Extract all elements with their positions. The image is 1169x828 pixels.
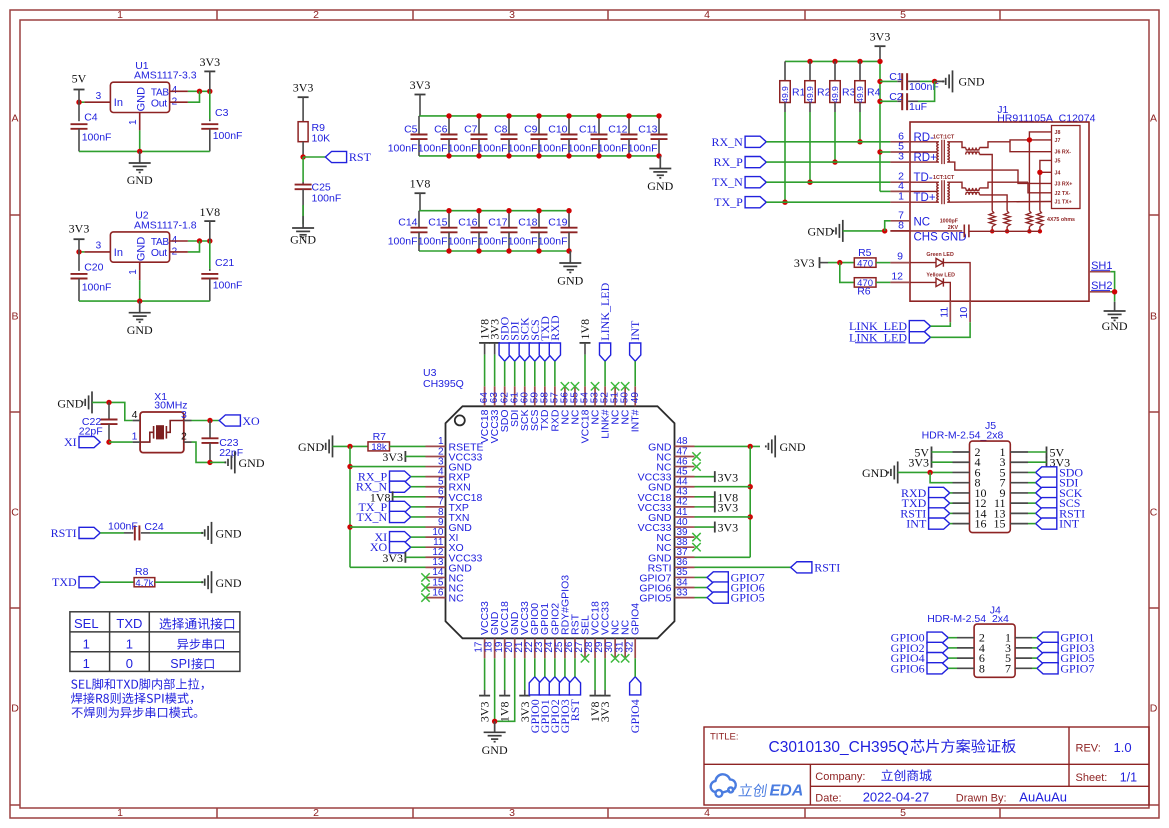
svg-text:GND: GND xyxy=(239,456,265,470)
svg-text:C25: C25 xyxy=(312,181,331,193)
svg-text:5: 5 xyxy=(900,9,906,21)
U3 pin 16 NC xyxy=(426,597,446,599)
svg-text:GND: GND xyxy=(647,179,673,193)
net flag RSTI J5-14 xyxy=(929,508,950,519)
wire R3 to pad xyxy=(834,103,836,113)
net 3V3 J5-3 xyxy=(1046,457,1048,468)
U3 pin 33 GPIO5 xyxy=(675,597,695,599)
U3 pin 51 NC xyxy=(614,386,616,406)
U3 pin 54 VCC18 xyxy=(584,386,586,406)
U3 pin 53 NC xyxy=(594,386,596,406)
svg-text:TX_N: TX_N xyxy=(357,510,388,524)
svg-text:C17: C17 xyxy=(488,217,507,229)
J4 pin 7 xyxy=(1015,667,1032,669)
wire xyxy=(302,157,304,182)
U3 pin 1 RSETE xyxy=(426,445,446,447)
X1 pin 2 xyxy=(184,441,192,443)
U3 pin 42 VCC33 xyxy=(675,506,695,508)
no-connect pins 14-16 xyxy=(421,573,429,581)
svg-text:R5: R5 xyxy=(858,247,872,259)
svg-text:100nF: 100nF xyxy=(418,236,448,248)
svg-text:470: 470 xyxy=(857,258,873,269)
J1 pin SH2 xyxy=(1089,291,1111,293)
U3 pin 46 NC xyxy=(675,466,695,468)
svg-text:RST: RST xyxy=(568,699,582,722)
svg-text:C18: C18 xyxy=(518,217,537,229)
capacitor C7 xyxy=(478,116,480,135)
svg-text:C20: C20 xyxy=(84,261,103,273)
net 5V J5-2 xyxy=(931,447,933,458)
net flag INT J5-16 xyxy=(929,518,950,529)
svg-text:GND: GND xyxy=(290,233,316,247)
svg-text:22pF: 22pF xyxy=(79,426,103,438)
J5 pin 10 xyxy=(953,492,970,494)
U3 pin 57 RXD xyxy=(554,386,556,406)
net flag RX_P pin4 xyxy=(390,471,411,482)
net flag RST bottom xyxy=(569,677,580,695)
svg-text:GND: GND xyxy=(959,75,985,89)
U3 pin 24 GPIO2 xyxy=(554,638,556,658)
U3 pin 49 INT# xyxy=(634,386,636,406)
svg-text:GND: GND xyxy=(127,173,153,187)
svg-text:AuAuAu: AuAuAu xyxy=(1019,790,1067,805)
U3 pin 31 NC xyxy=(624,638,626,658)
J5 pin 8 xyxy=(953,482,970,484)
svg-text:RST: RST xyxy=(349,150,372,164)
J1 pin 6 RD- xyxy=(890,141,910,143)
svg-text:1: 1 xyxy=(83,636,90,651)
svg-text:A: A xyxy=(1150,113,1157,125)
ground xyxy=(302,216,304,228)
svg-text:C5: C5 xyxy=(404,123,418,135)
J4 pin 6 xyxy=(957,657,974,659)
U3 pin 37 GND xyxy=(675,556,695,558)
net flag SDO xyxy=(499,343,510,361)
wire to pin9 GND xyxy=(350,526,426,528)
svg-text:D: D xyxy=(1150,703,1158,715)
J1 pin5 wire xyxy=(880,151,890,153)
svg-text:C16: C16 xyxy=(458,217,477,229)
EasyEDA logo xyxy=(711,774,736,796)
net 3V3 vertical xyxy=(489,342,500,344)
capacitor C6 xyxy=(448,116,450,135)
svg-text:GND: GND xyxy=(557,274,583,288)
input cap xyxy=(78,252,80,271)
svg-text:100nF: 100nF xyxy=(388,236,418,248)
svg-text:4X75 ohms: 4X75 ohms xyxy=(1047,217,1075,223)
U3 pin 60 SCK xyxy=(524,386,526,406)
svg-text:1V8: 1V8 xyxy=(578,319,592,340)
net flag XI xyxy=(79,437,100,448)
svg-text:RSTI: RSTI xyxy=(814,560,840,574)
gnd bus wire xyxy=(79,150,210,152)
net flag GPIO4 J4-6 xyxy=(927,653,948,664)
svg-text:In: In xyxy=(114,97,123,109)
X1 pin 3 xyxy=(184,420,192,422)
resistor R3 xyxy=(834,61,836,80)
U3 pin 40 VCC33 xyxy=(675,526,695,528)
U3 pin 22 GPIO0 xyxy=(534,638,536,658)
U3 pin 41 GND xyxy=(675,516,695,518)
svg-text:GND: GND xyxy=(298,440,324,454)
U3 pin 59 SCS xyxy=(534,386,536,406)
svg-text:1CT:1CT: 1CT:1CT xyxy=(933,175,955,181)
capacitor C10 xyxy=(568,116,570,135)
svg-text:C3010130_CH395Q: C3010130_CH395Q xyxy=(769,739,909,756)
U3 pin 11 XO xyxy=(426,546,446,548)
net flag GPIO2 bottom xyxy=(549,677,560,695)
net 3V3 pin45 xyxy=(695,476,715,478)
svg-text:SPI: SPI xyxy=(170,657,190,671)
svg-text:100nF: 100nF xyxy=(108,521,138,533)
svg-text:XO: XO xyxy=(242,414,260,428)
svg-text:15: 15 xyxy=(994,517,1006,531)
net flag RXD J5-10 xyxy=(929,487,950,498)
capacitor C12 xyxy=(628,116,630,135)
no-connect pins 47,46 xyxy=(692,452,700,460)
svg-text:100nF: 100nF xyxy=(448,142,478,154)
resistor R1 xyxy=(784,61,786,80)
terminator resistors 4X75 ohms xyxy=(989,211,995,227)
resistor R6 xyxy=(840,263,855,283)
svg-text:In: In xyxy=(114,247,123,259)
U3 pin 5 RXN xyxy=(426,486,446,488)
svg-text:C6: C6 xyxy=(434,123,448,135)
net flag SDI xyxy=(509,343,520,361)
table row2 cn xyxy=(177,638,224,649)
J1 pin 10 xyxy=(969,301,971,322)
X1 pin 4 xyxy=(133,420,141,422)
svg-text:B: B xyxy=(1150,311,1157,323)
svg-text:3: 3 xyxy=(509,9,515,21)
resistor R8 xyxy=(134,578,155,587)
svg-text:100nF: 100nF xyxy=(82,281,112,293)
svg-text:3V3: 3V3 xyxy=(410,78,431,92)
svg-text:C9: C9 xyxy=(524,123,538,135)
wire pin44 xyxy=(695,486,751,488)
ground xyxy=(225,451,234,473)
net flag LINK_LED pin52 xyxy=(599,343,610,361)
net flag SCS xyxy=(529,343,540,361)
transformer wires xyxy=(910,181,939,183)
svg-text:GND: GND xyxy=(482,743,508,757)
svg-text:3V3: 3V3 xyxy=(382,450,403,464)
svg-text:100nF: 100nF xyxy=(418,142,448,154)
svg-text:1: 1 xyxy=(83,656,90,671)
3V3 bus wire xyxy=(785,60,880,62)
net flag RST xyxy=(325,151,346,162)
no-connect pin 53 xyxy=(591,382,599,390)
svg-text:HDR-M-2.54_2x8: HDR-M-2.54_2x8 xyxy=(922,430,1004,442)
svg-text:GND: GND xyxy=(135,237,147,262)
svg-text:R1: R1 xyxy=(792,86,806,98)
U3 pin 20 GND xyxy=(514,638,516,658)
svg-text:C1: C1 xyxy=(889,71,903,83)
transformer secondary coil xyxy=(947,182,949,202)
U3 pin 52 LINK# xyxy=(604,386,606,406)
svg-text:49: 49 xyxy=(630,392,641,404)
crystal body xyxy=(140,412,184,453)
svg-text:3V3: 3V3 xyxy=(870,30,891,44)
net flag TXD xyxy=(79,577,100,588)
3V3 vertical wire xyxy=(879,61,881,191)
svg-text:C13: C13 xyxy=(638,123,657,135)
wire R1 to pad xyxy=(784,103,786,113)
net flag INT J5-15 xyxy=(1036,518,1057,529)
J1 pin 8 CHS GND xyxy=(890,230,910,232)
svg-text:J6 RX-: J6 RX- xyxy=(1055,150,1072,156)
J5 pin 5 xyxy=(1010,471,1028,473)
U3 pin 44 GND xyxy=(675,486,695,488)
ground pins 18,20 xyxy=(494,658,496,721)
title block xyxy=(704,727,1149,805)
U3 pin 43 VCC18 xyxy=(675,496,695,498)
svg-text:C4: C4 xyxy=(84,112,98,124)
svg-text:Company:: Company: xyxy=(815,771,865,783)
notes text xyxy=(71,678,204,690)
net flag GPIO7 pin35 xyxy=(695,576,708,578)
svg-text:TITLE:: TITLE: xyxy=(710,732,739,743)
resistor R5 xyxy=(854,258,876,267)
net flag RX_N pin5 xyxy=(390,481,411,492)
J1 pin 2 TD- xyxy=(890,181,910,183)
svg-text:Yellow LED: Yellow LED xyxy=(926,273,955,279)
net 3V3 J5-4 xyxy=(931,457,933,468)
U3 pin 26 RST xyxy=(574,638,576,658)
resistor R7 xyxy=(368,442,390,451)
svg-text:3V3: 3V3 xyxy=(382,551,403,565)
svg-text:16: 16 xyxy=(432,587,444,598)
svg-text:3: 3 xyxy=(96,91,102,102)
U3 pin 48 GND xyxy=(675,445,695,447)
svg-text:100nF: 100nF xyxy=(508,142,538,154)
svg-text:J5: J5 xyxy=(1055,158,1061,164)
svg-text:C8: C8 xyxy=(494,123,508,135)
U3 pin 19 VCC18 xyxy=(504,638,506,658)
svg-text:1.0: 1.0 xyxy=(1114,740,1132,755)
svg-text:2KV: 2KV xyxy=(948,225,959,231)
svg-text:8: 8 xyxy=(979,661,985,675)
wire xyxy=(150,532,204,534)
svg-text:J1 TX+: J1 TX+ xyxy=(1055,199,1072,205)
svg-text:2: 2 xyxy=(313,807,319,819)
svg-text:Date:: Date: xyxy=(815,792,841,804)
svg-text:C: C xyxy=(11,507,19,519)
net flag SCS J5-11 xyxy=(1036,498,1057,509)
U3 pin 25 RDY#GPIO3 xyxy=(564,638,566,658)
svg-text:2: 2 xyxy=(181,431,187,443)
svg-text:GND: GND xyxy=(216,527,242,541)
svg-text:4: 4 xyxy=(132,409,138,421)
resistor R4 xyxy=(859,61,861,80)
wire xyxy=(302,142,304,157)
svg-text:100nF: 100nF xyxy=(598,142,628,154)
net flag TXD xyxy=(539,343,550,361)
J5 pin 14 xyxy=(953,512,970,514)
svg-text:3: 3 xyxy=(96,241,102,252)
company name xyxy=(881,769,931,781)
svg-text:3V3: 3V3 xyxy=(478,702,492,723)
U3 pin 58 TXD xyxy=(544,386,546,406)
svg-text:1uF: 1uF xyxy=(909,101,927,113)
transformer wires xyxy=(910,141,939,143)
J4 pin 8 xyxy=(957,667,974,669)
svg-text:J4: J4 xyxy=(1055,170,1061,176)
svg-text:C21: C21 xyxy=(215,257,234,269)
svg-text:C7: C7 xyxy=(464,123,478,135)
ground xyxy=(139,301,141,313)
U3 pin 7 TXP xyxy=(426,506,446,508)
ground xyxy=(935,80,945,82)
svg-text:Green LED: Green LED xyxy=(926,252,954,258)
net flag GPIO3 J4-3 xyxy=(1037,642,1058,653)
svg-text:INT: INT xyxy=(906,517,927,531)
U3 pin 62 SDO xyxy=(504,386,506,406)
svg-text:3: 3 xyxy=(181,409,187,421)
svg-text:0: 0 xyxy=(126,656,133,671)
svg-text:GPIO4: GPIO4 xyxy=(630,603,642,635)
net flag GPIO5 J4-5 xyxy=(1037,653,1058,664)
J1 pin 7 NC xyxy=(890,220,910,222)
svg-text:3V3: 3V3 xyxy=(598,702,612,723)
no-connect pins 30,31 xyxy=(611,654,619,662)
net flag RXD xyxy=(549,343,560,361)
svg-text:100nF: 100nF xyxy=(213,280,243,292)
net flag TX_N pin8 xyxy=(390,511,411,522)
svg-text:GPIO4: GPIO4 xyxy=(628,699,642,733)
svg-text:1: 1 xyxy=(126,636,133,651)
svg-text:100nF: 100nF xyxy=(508,236,538,248)
svg-text:RX_N: RX_N xyxy=(711,135,743,149)
wire gnd to pin4 xyxy=(109,402,133,420)
svg-text:C3: C3 xyxy=(215,107,229,119)
U3 pin 2 VCC33 xyxy=(426,455,446,457)
capacitor C5 xyxy=(418,116,420,135)
net 1V8 vertical xyxy=(580,342,591,344)
svg-text:7: 7 xyxy=(1005,661,1011,675)
U3 pin 4 RXP xyxy=(426,476,446,478)
U3 pin 21 VCC33 xyxy=(524,638,526,658)
svg-text:8: 8 xyxy=(898,219,904,231)
capacitor C22 xyxy=(108,402,110,419)
svg-text:AMS1117-1.8: AMS1117-1.8 xyxy=(134,219,197,231)
svg-text:3V3: 3V3 xyxy=(794,256,815,270)
J5 pin 1 xyxy=(1010,451,1028,453)
svg-text:100nF: 100nF xyxy=(538,236,568,248)
svg-text:33: 33 xyxy=(677,587,689,598)
svg-text:J3 RX+: J3 RX+ xyxy=(1055,181,1073,187)
crystal symbol xyxy=(140,421,184,443)
net flag GPIO3 bottom xyxy=(559,677,570,695)
svg-text:RX_P: RX_P xyxy=(713,155,743,169)
svg-text:49.9: 49.9 xyxy=(855,86,865,103)
svg-text:GPIO5: GPIO5 xyxy=(639,593,671,605)
transformer core xyxy=(941,180,943,204)
net flag SDO J5-5 xyxy=(1036,467,1057,478)
U3 pin 13 GND xyxy=(426,566,446,568)
svg-text:GND: GND xyxy=(808,225,834,239)
ground pin48 xyxy=(695,445,761,447)
capacitor C9 xyxy=(538,116,540,135)
U3 pin 6 VCC18 xyxy=(426,496,446,498)
svg-text:GND: GND xyxy=(135,87,147,112)
net flag GPIO0 bottom xyxy=(529,677,540,695)
U3 pin 15 NC xyxy=(426,587,446,589)
U3 pin 23 GPIO1 xyxy=(544,638,546,658)
ground xyxy=(202,522,211,544)
svg-text:NC: NC xyxy=(914,216,931,228)
net flag XI pin10 xyxy=(390,532,411,543)
svg-text:1: 1 xyxy=(898,191,904,203)
svg-text:J2 TX-: J2 TX- xyxy=(1055,191,1071,197)
capacitor C24 xyxy=(100,532,124,534)
svg-text:1CT:1CT: 1CT:1CT xyxy=(933,135,955,141)
svg-text:SEL: SEL xyxy=(74,616,99,631)
svg-text:TXD: TXD xyxy=(52,575,77,589)
svg-text:GND: GND xyxy=(1102,319,1128,333)
svg-text:R8: R8 xyxy=(135,566,149,578)
svg-text:GPIO5: GPIO5 xyxy=(731,591,765,605)
choke coil xyxy=(966,188,980,191)
capacitor C11 xyxy=(598,116,600,135)
capacitor C13 xyxy=(658,116,660,135)
svg-text:Out: Out xyxy=(151,247,167,259)
svg-text:3V3: 3V3 xyxy=(718,501,739,515)
svg-text:R3: R3 xyxy=(842,86,856,98)
svg-text:100nF: 100nF xyxy=(478,236,508,248)
J1 pin 11 xyxy=(949,301,951,322)
svg-text:RSTI: RSTI xyxy=(51,526,77,540)
U3 pin 18 GND xyxy=(494,638,496,658)
wire to pin3 GND xyxy=(350,466,426,468)
svg-text:R4: R4 xyxy=(867,86,881,98)
capacitor C25 xyxy=(302,182,304,185)
U3 pin 35 GPIO7 xyxy=(675,576,695,578)
J5 pin 4 xyxy=(953,461,970,463)
svg-text:LINK_LED: LINK_LED xyxy=(849,330,907,344)
svg-text:J8: J8 xyxy=(1055,130,1061,136)
U3 pin 34 GPIO6 xyxy=(675,587,695,589)
J5 pin 13 xyxy=(1010,512,1028,514)
svg-text:Sheet:: Sheet: xyxy=(1076,772,1108,784)
resistor R9 xyxy=(298,122,308,142)
svg-text:3V3: 3V3 xyxy=(293,81,314,95)
svg-text:16: 16 xyxy=(975,517,987,531)
capacitor C14 xyxy=(418,211,420,228)
svg-text:3V3: 3V3 xyxy=(69,221,90,235)
net flag XO pin11 xyxy=(390,542,411,553)
svg-text:3V3: 3V3 xyxy=(199,55,220,69)
svg-text:1V8: 1V8 xyxy=(410,177,431,191)
regulator U1 box xyxy=(110,82,169,112)
svg-text:LINK_LED: LINK_LED xyxy=(598,282,612,340)
net flag TX_P xyxy=(745,197,766,208)
svg-text:GND: GND xyxy=(127,323,153,337)
capacitor C15 xyxy=(448,211,450,228)
wire xyxy=(155,581,204,583)
input cap xyxy=(78,102,80,121)
wire xyxy=(100,581,134,583)
U3 pin 56 NC xyxy=(564,386,566,406)
net 3V3 pin42 xyxy=(695,506,715,508)
svg-text:B: B xyxy=(11,311,18,323)
net flag XO xyxy=(219,415,240,426)
wire to RST xyxy=(303,156,325,158)
wire to J1 pin12 xyxy=(876,281,890,283)
svg-text:EDA: EDA xyxy=(770,783,804,800)
net 5V J5-1 xyxy=(1046,447,1048,458)
J1 pin 4 ct xyxy=(890,190,910,192)
